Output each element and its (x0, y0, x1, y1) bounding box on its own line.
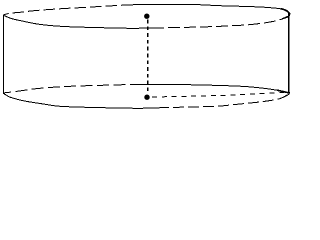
bottom rim right tip hook (thickening) (277, 90, 289, 93)
bottom face center dot (144, 95, 149, 100)
cylinder right side line (288, 14, 290, 94)
top rim right tip hook (thickening) (281, 9, 290, 14)
cylinder top face rim, lower-right arc (dashed) (152, 15, 290, 28)
cylinder bottom rim, lower-right arc (dashed) (158, 94, 290, 108)
dashed axis line (147, 20, 149, 92)
cylinder top face rim, lower-left arc (solid) (3, 15, 152, 28)
cylinder top face rim, upper-left arc (dashed) (3, 5, 131, 15)
dashed radius line (152, 92, 290, 97)
top face center dot (144, 14, 149, 19)
cylinder left side line (3, 15, 5, 93)
cylinder top face rim, upper-right arc (solid) (131, 4, 290, 14)
cylinder bottom rim, upper-left arc (dashed) (3, 85, 130, 94)
top rim lower-right arc tip end (solid) (282, 15, 290, 19)
bottom rim lower-right arc tip end (solid) (280, 94, 290, 99)
cylinder bottom rim, upper-right arc (solid) (130, 84, 290, 93)
cylinder bottom rim, lower-left arc (solid) (3, 93, 158, 108)
